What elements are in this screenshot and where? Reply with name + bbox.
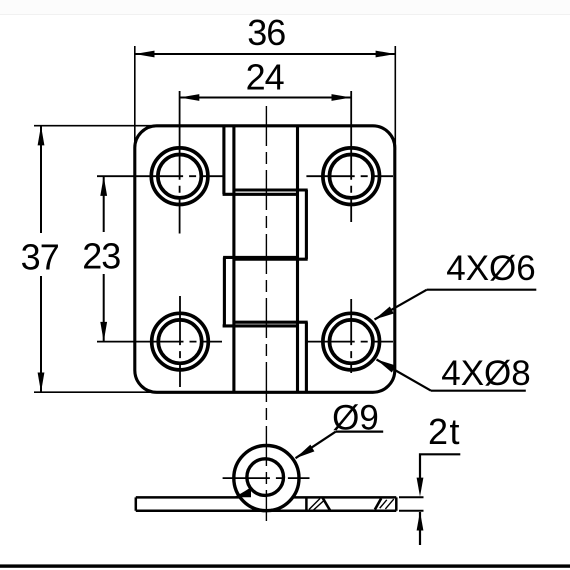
hole TR countersink — [323, 148, 380, 205]
hole BR centerlines — [350, 299, 352, 373]
hole TL bore — [158, 155, 201, 198]
dim 36 arrow right — [376, 51, 396, 58]
hatch patch B — [375, 498, 394, 509]
hole BR countersink — [323, 313, 380, 370]
knuckle junction 1 lower — [223, 193, 299, 196]
dim 36 line — [135, 53, 396, 55]
dim 37 line lower — [40, 276, 42, 392]
plate outline — [135, 126, 395, 393]
hatch patch A — [309, 498, 330, 511]
left leaf cut edge (segment 3) — [223, 257, 226, 326]
svg-text:4XØ6: 4XØ6 — [446, 249, 536, 288]
dim 23 line upper — [103, 176, 105, 232]
dim 24 arrow left — [180, 94, 200, 101]
side view centerlines — [223, 477, 310, 479]
svg-text:24: 24 — [246, 57, 284, 98]
knuckle junction 3 lower — [223, 324, 299, 327]
hole BR bore — [330, 320, 373, 363]
left leaf cut edge (segment 1) — [222, 126, 225, 195]
hole BL bore — [158, 320, 201, 363]
label 4XO6 leader — [427, 289, 537, 291]
hole TL centerlines — [179, 91, 181, 234]
dim 37 arrow bottom — [38, 373, 45, 393]
knuckle right silhouette — [296, 126, 299, 393]
dim 23 line lower — [103, 274, 105, 342]
dim 23 arrow top — [100, 176, 107, 196]
knuckle junction 2 upper — [223, 256, 299, 259]
dim 2t line lower — [419, 512, 421, 545]
svg-text:Ø9: Ø9 — [332, 399, 379, 438]
label 4XO6 arrowhead — [375, 307, 394, 320]
hole BL centerlines — [179, 296, 181, 387]
svg-text:36: 36 — [247, 12, 285, 53]
side view knuckle outer circle — [234, 446, 299, 511]
hole TR bore — [330, 155, 373, 198]
dim 2t arrow lower — [417, 512, 424, 531]
hole TR centerlines — [350, 91, 352, 222]
faint top band — [0, 0, 570, 14]
svg-text:37: 37 — [21, 237, 59, 278]
hole BL countersink — [152, 313, 209, 370]
side view leaf divider — [305, 497, 308, 510]
label 4XO8 leader — [431, 390, 526, 392]
center line (pin axis) — [265, 106, 267, 521]
side view curl fillet — [234, 488, 252, 497]
knuckle junction 2 lower — [234, 258, 308, 261]
dim 36 extension lines — [134, 46, 136, 150]
dim 37 arrow top — [38, 126, 45, 146]
side view leaf bar — [136, 497, 397, 510]
knuckle junction 1 upper — [234, 188, 308, 191]
bottom border line — [0, 564, 570, 567]
svg-text:4XØ8: 4XØ8 — [441, 354, 531, 393]
svg-text:2t: 2t — [428, 411, 461, 452]
hole TL countersink — [151, 148, 208, 205]
label O9 arrowhead — [296, 445, 315, 459]
label 4XO8 arrowhead — [377, 360, 396, 373]
dim 24 line — [180, 97, 352, 99]
dim 2t arrow upper — [417, 478, 424, 497]
label O9 leader — [336, 431, 383, 433]
right leaf cut edge (segment 2) — [305, 190, 308, 259]
dim 2t bracket — [420, 454, 460, 481]
dim 37 extension lines — [34, 125, 160, 127]
side view pin bore circle — [247, 459, 284, 496]
knuckle left silhouette — [232, 126, 235, 393]
knuckle junction 3 upper — [234, 321, 308, 324]
right leaf cut edge (segment 4) — [305, 322, 308, 392]
svg-text:23: 23 — [82, 236, 120, 277]
dim 23 arrow bottom — [100, 322, 107, 342]
dim 2t extension lines — [399, 496, 424, 498]
dim 36 arrow left — [135, 51, 155, 58]
dim 24 arrow right — [332, 94, 352, 101]
dim 37 line upper — [40, 126, 42, 233]
